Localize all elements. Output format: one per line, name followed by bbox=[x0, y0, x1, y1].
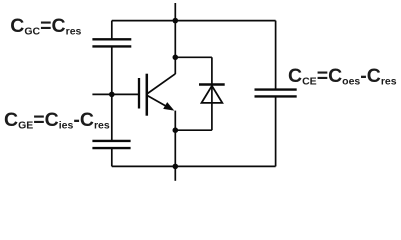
node top junction bbox=[173, 18, 179, 24]
emitter diagonal bbox=[147, 95, 172, 109]
wire: diode top horizontal bbox=[175, 56, 212, 58]
wire: CGE bottom vertical bbox=[111, 148, 113, 166]
wire: emitter rail vertical bottom stub bbox=[174, 130, 176, 181]
gate bar bbox=[138, 78, 140, 109]
capacitor CGC plates bbox=[92, 39, 131, 46]
wire: diode bottom horizontal bbox=[175, 129, 212, 131]
node bottom junction bbox=[173, 164, 179, 170]
transistor Q1 IGBT bbox=[139, 74, 175, 131]
diode D1 bbox=[199, 85, 225, 103]
wire: CGC to gate node to CGE vertical bbox=[111, 46, 113, 141]
node collector junction bbox=[173, 55, 179, 61]
wire: top horizontal net bbox=[112, 20, 276, 22]
anode triangle bbox=[202, 86, 223, 103]
node emitter junction bbox=[173, 127, 179, 133]
capacitor CGE plates bbox=[92, 141, 130, 148]
wire: collector rail vertical top bbox=[174, 3, 176, 74]
emitter vertical lead bbox=[174, 111, 176, 131]
channel bar bbox=[146, 74, 149, 116]
wire: bottom horizontal net bbox=[112, 165, 276, 167]
wire: left branch vertical into CGC bbox=[111, 21, 113, 40]
wire: gate lead horizontal bbox=[92, 93, 138, 95]
wire: right branch vertical top bbox=[275, 21, 277, 90]
emitter arrowhead bbox=[163, 102, 174, 111]
node gate junction bbox=[109, 92, 115, 98]
wire: diode branch vertical bbox=[211, 57, 213, 130]
cathode bar bbox=[199, 83, 225, 85]
wire: right branch vertical bottom bbox=[275, 96, 277, 166]
capacitor CCE plates bbox=[255, 90, 297, 97]
collector diagonal bbox=[147, 74, 176, 94]
